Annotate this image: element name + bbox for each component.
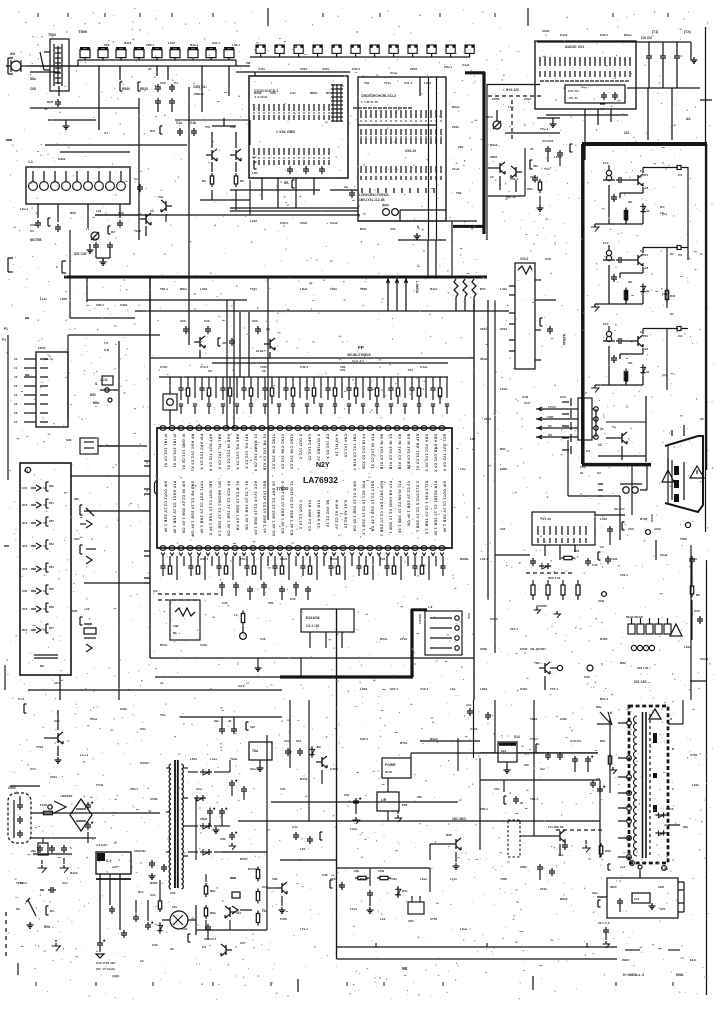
wire bus above box B: [236, 72, 350, 76]
svg-text:30L: 30L: [628, 280, 633, 284]
dashed net to FBT: [556, 829, 602, 831]
wire box D to CRT board: [585, 88, 672, 160]
svg-text:2.9: 2.9: [678, 173, 683, 177]
dashes under tuner text: [488, 95, 541, 97]
wire X203 rails: [568, 409, 620, 496]
svg-text:SIF IN C2.1V 2GB 1.0F CN: SIF IN C2.1V 2GB 1.0F CN: [182, 481, 186, 533]
svg-text:[4:]: [4:]: [662, 292, 667, 296]
caps near N401: [344, 793, 402, 824]
svg-text:R5xx: R5xx: [160, 643, 168, 647]
svg-text:T95.1: T95.1: [530, 797, 538, 801]
resistor R533: [138, 82, 148, 91]
labels below IC mid: [222, 597, 296, 605]
front AV connector XS201: [36, 352, 68, 427]
svg-text:254: 254: [643, 173, 648, 177]
T901 primary winding arcs: [634, 716, 638, 856]
svg-text:C1.3: C1.3: [18, 697, 25, 701]
svg-text:H: NNNN-x .2: H: NNNN-x .2: [623, 973, 644, 977]
svg-text:3C: 3C: [700, 417, 705, 421]
box C pin comb row 1: [360, 110, 441, 122]
svg-text:Z25x: Z25x: [452, 125, 459, 129]
svg-text:3X4/9: 3X4/9: [650, 514, 654, 522]
box B bottom caps: [287, 166, 325, 174]
varistor RV801: [16, 898, 36, 916]
svg-text:02u: 02u: [214, 719, 219, 723]
wire long verticals to IC top: [227, 300, 495, 653]
svg-text:V11x: V11x: [258, 67, 265, 71]
svg-text:R20: R20: [360, 227, 366, 231]
svg-text:J0b: J0b: [316, 745, 321, 749]
svg-text:L6ux: L6ux: [460, 927, 468, 931]
svg-text:V1R AND FC C2: V1R AND FC C2: [308, 500, 312, 531]
svg-text:V9u.1: V9u.1: [250, 767, 259, 771]
primary electrolytic C810: [96, 940, 105, 958]
resistor row E30: [531, 580, 580, 608]
wire horiz y145: [45, 144, 187, 146]
svg-text:C30: C30: [222, 601, 228, 605]
svg-text:T7u0: T7u0: [96, 783, 104, 787]
svg-text:LA76932: LA76932: [303, 475, 338, 485]
parts J26: [218, 338, 235, 346]
wire bottom risers: [267, 700, 474, 930]
keyboard key row 5: [22, 563, 54, 572]
T801 winding taps: [166, 768, 188, 856]
svg-text:C3.I: C3.I: [62, 881, 68, 885]
svg-text:R3u: R3u: [596, 705, 602, 709]
svg-text:R530: R530: [122, 87, 130, 91]
svg-text:C0b: C0b: [22, 589, 28, 593]
wire y115 horizontals: [505, 115, 628, 133]
box B lower-left parts: [252, 155, 259, 175]
svg-text:X22: X22: [250, 725, 255, 729]
svg-text:FP: FP: [358, 345, 364, 350]
CRT amp bottom wire: [609, 185, 643, 224]
capacitor C540: [55, 224, 61, 232]
svg-text:V6u.1: V6u.1: [700, 657, 709, 661]
wire right cluster rails: [488, 148, 525, 196]
svg-text:Z2u0: Z2u0: [480, 357, 488, 361]
svg-text:.7MHz c: .7MHz c: [193, 92, 205, 96]
IC U201 bottom pin name labels: [164, 481, 447, 537]
vertical net label L5x03A: [415, 281, 419, 294]
crystal X1 box: [163, 377, 177, 425]
svg-text:.1 .2 1S 2L: .1 .2 1S 2L: [254, 95, 268, 99]
svg-text:R57: R57: [49, 626, 54, 630]
IF link parts: [537, 179, 544, 211]
dashed luminance net: [526, 573, 572, 580]
svg-text:E02: E02: [402, 803, 408, 807]
svg-text:2P1 ABCDE1 C2.1V 2GB 1.0: 2P1 ABCDE1 C2.1V 2GB 1.0: [218, 481, 222, 537]
svg-text:L40x: L40x: [500, 287, 507, 291]
T901 terminals: [618, 721, 631, 860]
svg-text:Tx1 1DE.3G: Tx1 1DE.3G: [548, 825, 564, 829]
svg-text:T22.1: T22.1: [620, 573, 628, 577]
parts left of chain: [222, 878, 252, 914]
svg-text:F1N 3G1B1 C2.1V 2GB 1.0F: F1N 3G1B1 C2.1V 2GB 1.0F: [434, 481, 438, 536]
svg-text:L3ux: L3ux: [350, 827, 358, 831]
svg-text:2.9: 2.9: [678, 334, 683, 338]
wire horiz y758: [411, 753, 598, 758]
svg-text:T350: T350: [500, 877, 507, 881]
svg-text:Z40x: Z40x: [560, 717, 567, 721]
svg-text:1.: 1.: [222, 899, 225, 903]
coil row L30: [631, 645, 654, 670]
standby transistor V806: [267, 877, 287, 913]
CRT board bottom transistor: [606, 425, 627, 460]
svg-text:2.9: 2.9: [678, 253, 683, 257]
svg-text:Z12.1: Z12.1: [510, 627, 518, 631]
svg-text:> XXL GBO: > XXL GBO: [276, 130, 295, 134]
svg-text:-29u: -29u: [30, 849, 36, 853]
svg-text:C6x: C6x: [140, 727, 146, 731]
svg-text:T810: T810: [260, 365, 267, 369]
svg-text:V7u.1: V7u.1: [200, 365, 209, 369]
dashed net below IC left: [153, 589, 218, 600]
svg-text:12V: 12V: [660, 907, 665, 911]
connector X902 left of CRT board: [560, 395, 571, 454]
wire vertical x691 lower: [690, 545, 692, 700]
transistor Q22: [194, 336, 205, 358]
resistor R536: [202, 173, 214, 187]
svg-text:R: R: [670, 717, 673, 721]
switch sub-circuit S4: [72, 607, 96, 652]
label 222: [600, 104, 630, 135]
svg-text:5+3 2/3: 5+3 2/3: [506, 88, 519, 92]
CRT amp bottom wire: [609, 265, 643, 304]
svg-text:V10.1: V10.1: [420, 687, 428, 691]
svg-text:34-: 34-: [646, 370, 650, 374]
svg-text:T100: T100: [16, 881, 23, 885]
warning triangle right: [670, 624, 682, 636]
svg-text:LCRXCRXCYCRX2L: LCRXCRXCYCRX2L: [359, 193, 389, 197]
CRT amp circuit B coil L: [603, 322, 615, 342]
svg-text:C3d: C3d: [182, 927, 188, 931]
svg-text:L90x: L90x: [480, 687, 487, 691]
N601b pin stubs: [678, 882, 684, 912]
svg-text:T4u: T4u: [544, 167, 550, 171]
svg-text:V1N3 CVA 1V2.C0: V1N3 CVA 1V2.C0: [290, 434, 294, 469]
svg-text:C91: C91: [390, 227, 396, 231]
svg-text:N2Y: N2Y: [316, 462, 330, 469]
svg-text:T20: T20: [104, 43, 110, 47]
svg-text:R1x: R1x: [138, 890, 144, 894]
capacitor C805: [40, 887, 56, 893]
capacitor C20 right cluster: [252, 319, 270, 334]
svg-text:R52: R52: [49, 519, 54, 523]
svg-text:Z350: Z350: [480, 647, 487, 651]
svg-text:Z1u2: Z1u2: [452, 167, 460, 171]
svg-text:1.1: 1.1: [28, 160, 33, 164]
svg-text:L/R: L/R: [381, 798, 387, 802]
svg-text:R812: R812: [560, 897, 568, 901]
volume control box N202: [515, 257, 535, 369]
wire bus risers: [70, 230, 436, 520]
svg-text:V21: V21: [280, 787, 286, 791]
N601b internals: [610, 885, 665, 912]
wire vertical x452 stub: [451, 221, 453, 277]
fuse F801: [40, 803, 56, 815]
keyboard box label: [24, 467, 31, 473]
wire horiz y190 segment mid: [330, 189, 358, 191]
svg-text:V4u2: V4u2: [462, 63, 470, 67]
svg-text:-C6 .1x: -C6 .1x: [568, 96, 578, 100]
svg-text:T2x0: T2x0: [134, 229, 141, 233]
svg-text:V720: V720: [690, 753, 698, 757]
svg-text:C11: C11: [408, 368, 413, 372]
wire horiz y215: [95, 214, 360, 216]
svg-text:(R20: (R20: [610, 885, 617, 889]
sheet top ruler tick marks: [38, 8, 668, 26]
caps on 780 rail: [590, 777, 605, 794]
svg-text:3C0: 3C0: [22, 521, 28, 525]
svg-text:V20x: V20x: [322, 67, 330, 71]
wire collector rails: [212, 118, 236, 210]
labels S= near box G top: [93, 378, 118, 405]
SIF module box N601b: [607, 878, 678, 918]
svg-text:R51x: R51x: [380, 637, 388, 641]
svg-text:33C/DL/TW/E2X: 33C/DL/TW/E2X: [347, 353, 372, 357]
svg-text:L922: L922: [360, 687, 367, 691]
label C02 on wire: [160, 681, 245, 688]
svg-text:P1F IN 1V2.C0 X1: P1F IN 1V2.C0 X1: [371, 434, 375, 469]
wire deflection rails: [534, 700, 600, 858]
STR regulator U801: [96, 852, 131, 879]
svg-text:T70.1: T70.1: [550, 687, 558, 691]
svg-text:A2:: A2:: [686, 117, 691, 121]
svg-text:L1u: L1u: [508, 105, 514, 109]
svg-text:2DB: 2DB: [605, 849, 611, 853]
svg-text:4.8: 4.8: [644, 266, 649, 270]
transistor Q303: [488, 162, 505, 190]
svg-text:b: b: [672, 787, 674, 791]
svg-text:A1 L C2.1V 2GB 1.0F CN: A1 L C2.1V 2GB 1.0F CN: [245, 481, 249, 530]
svg-text:R51: R51: [49, 501, 54, 505]
transistor Q501: [205, 125, 217, 172]
svg-text:SEL OUT C2.1V 2GB 1.0F C: SEL OUT C2.1V 2GB 1.0F C: [209, 481, 213, 536]
svg-text:(8)(8): (8)(8): [382, 203, 389, 207]
svg-text:R412: R412: [124, 41, 132, 45]
AV switch box N301: [358, 77, 446, 221]
svg-text:4.43 FIL 1V: 4.43 FIL 1V: [335, 434, 339, 457]
svg-text:V1 RAMP 1V2.C0 X: V1 RAMP 1V2.C0 X: [254, 434, 258, 472]
spark gaps under CRT board: [597, 471, 642, 511]
switch sub-circuit S1: [66, 438, 119, 454]
svg-text:1TCA: 1TCA: [548, 405, 557, 409]
label row 18L-85: [530, 647, 546, 651]
svg-text:254: 254: [643, 253, 648, 257]
labels LOC 30G: [452, 817, 466, 821]
svg-text:CRCECRCHCRLXCL3: CRCECRCHCRLXCL3: [361, 94, 396, 98]
svg-text:C0:: C0:: [208, 369, 213, 373]
mic preamp parts: [90, 341, 113, 397]
balun transformer T502: [40, 33, 69, 96]
label row under U801: [96, 961, 119, 978]
CRT amp diode: [640, 203, 666, 216]
keyboard key row 2: [22, 499, 54, 508]
svg-text:R3ux: R3ux: [624, 33, 632, 37]
svg-text:R40: R40: [670, 294, 676, 298]
svg-text:TN3: TN3: [534, 661, 540, 665]
svg-text:P0C XC1.1V C2.1V 2GB 1.0: P0C XC1.1V C2.1V 2GB 1.0: [362, 481, 366, 535]
svg-text:[4:]: [4:]: [662, 373, 667, 377]
svg-text:C1 IN 1V2.C0 X1B: C1 IN 1V2.C0 X1B: [389, 434, 393, 470]
svg-text:CAPC 1V2.C0: CAPC 1V2.C0: [308, 434, 312, 461]
svg-text:Z41: Z41: [548, 139, 554, 143]
svg-text:3C: 3C: [170, 947, 175, 951]
labels right of U801: [138, 890, 175, 951]
bits near deflection left: [292, 825, 323, 844]
bottom-right title text: [622, 950, 696, 977]
svg-text:Z65.1: Z65.1: [480, 807, 488, 811]
dashed box around V403 base: [508, 820, 534, 857]
parts x500 cluster: [494, 780, 524, 805]
svg-text:30L: 30L: [628, 361, 633, 365]
svg-text:R4x.1: R4x.1: [190, 43, 199, 47]
box C divider line: [358, 124, 437, 126]
svg-text:R4xx: R4xx: [430, 287, 438, 291]
box B center label: [276, 130, 295, 134]
svg-text:L20.1: L20.1: [480, 557, 488, 561]
transistor Q21: [256, 338, 275, 358]
tuner labels: [490, 147, 534, 199]
svg-text:V4u: V4u: [118, 211, 124, 215]
svg-text:RE-: RE-: [284, 181, 290, 185]
svg-text:C550: C550: [492, 97, 500, 101]
svg-text:34-: 34-: [646, 289, 650, 293]
svg-text:C72x: C72x: [160, 365, 168, 369]
capacitor C26: [204, 319, 211, 334]
svg-text:V40.1: V40.1: [300, 365, 308, 369]
CRT amp circuit G coil L: [603, 241, 615, 261]
svg-text:R30: R30: [47, 100, 53, 104]
svg-text:C62: C62: [580, 465, 586, 469]
svg-text:5C2: 5C2: [296, 739, 302, 743]
svg-text:2X1.13G ---: 2X1.13G ---: [634, 680, 651, 684]
capacitor C531: [155, 81, 166, 92]
CRT amp ground: [591, 304, 609, 311]
svg-text:C53: C53: [160, 81, 166, 85]
svg-text:3x3: 3x3: [501, 749, 506, 753]
CRT bottom verticals: [646, 228, 688, 462]
svg-text:V OUT 1V2.C: V OUT 1V2.C: [299, 434, 303, 460]
svg-text:T3u2: T3u2: [230, 757, 238, 761]
wires into T901 left: [596, 705, 612, 793]
wire CRT bottom horizontals: [598, 422, 646, 456]
svg-text:E2X1/D6: E2X1/D6: [306, 616, 320, 620]
svg-text:1x: 1x: [44, 107, 48, 111]
svg-text:IF IN1 1V2.C0 X1: IF IN1 1V2.C0 X1: [164, 434, 168, 468]
caps right of U802: [570, 739, 593, 772]
XP1 pins: [14, 796, 23, 838]
svg-text:2.5: 2.5: [586, 449, 591, 453]
wire horiz y821: [238, 820, 600, 822]
svg-text:C4b: C4b: [592, 563, 598, 567]
label IF text: [193, 85, 207, 96]
horizontal y740 segment: [420, 740, 480, 742]
wire mains lines: [10, 786, 89, 838]
svg-text:X.B: X.B: [104, 348, 110, 352]
svg-text:R50: R50: [49, 484, 54, 488]
svg-text:R9x: R9x: [600, 739, 606, 743]
svg-text:AUDIO XX1: AUDIO XX1: [565, 45, 584, 49]
svg-text:C2x: C2x: [284, 739, 290, 743]
cluster 020 caps: [214, 717, 255, 734]
svg-text:+2M/C84: +2M/C84: [60, 794, 73, 798]
wires below box B: [230, 178, 320, 208]
resistor R511: [150, 126, 163, 134]
svg-text:Z422: Z422: [520, 687, 527, 691]
svg-text:V1 FB 1V2.C0 X1B: V1 FB 1V2.C0 X1B: [263, 434, 267, 471]
svg-text:16: 16: [14, 411, 18, 415]
dashed left margin: [5, 912, 7, 956]
svg-text:CN4 1V2.C0: CN4 1V2.C0: [344, 434, 348, 458]
svg-text:S14: S14: [514, 735, 520, 739]
transistor Q304: [511, 166, 522, 192]
capacitor cluster below IC: [219, 582, 311, 600]
svg-text:P1T AN 1AN3 C2.1V 2GB 1.: P1T AN 1AN3 C2.1V 2GB 1.: [389, 481, 393, 535]
capacitor C306: [527, 175, 538, 191]
svg-text:SIF OUT1 C2.1V 2GB 1.0F: SIF OUT1 C2.1V 2GB 1.0F: [164, 481, 168, 533]
XS301 pin comb: [538, 526, 586, 543]
svg-text:V1N1 CVA 1V2.C0: V1N1 CVA 1V2.C0: [281, 434, 285, 469]
CRT amp ground: [591, 224, 609, 231]
trimmer TC301: [486, 110, 501, 129]
regulator 7805 N803: [249, 742, 272, 771]
CRT amp transistor V902: [632, 249, 649, 270]
svg-text:AFT OUT 1V2.C0 X: AFT OUT 1V2.C0 X: [209, 434, 213, 472]
svg-text:E1P BK 1V2.C0 X1: E1P BK 1V2.C0 X1: [416, 434, 420, 471]
wire heavy AGC bus: [64, 276, 487, 279]
sheet bottom ruler tick marks: [36, 976, 673, 992]
svg-text:Z90x: Z90x: [520, 865, 527, 869]
IC U201 body: [155, 428, 453, 548]
svg-text:F1S0: F1S0: [40, 803, 48, 807]
cap C707: [694, 609, 703, 624]
N601b left stub: [592, 891, 607, 907]
svg-text:30L: 30L: [628, 200, 633, 204]
XS201 pin rows: [14, 357, 48, 424]
bracket R539: [48, 218, 51, 226]
label 2X1.13G: [634, 680, 706, 684]
svg-text:1C0: 1C0: [22, 486, 28, 490]
decoupling comb above IC: [178, 377, 449, 414]
svg-text:S30: S30: [66, 438, 72, 442]
svg-text:T600: T600: [360, 287, 367, 291]
wire vertical x301 drop: [290, 658, 301, 768]
svg-text:2x: 2x: [580, 471, 584, 475]
wire drops below Z501: [38, 204, 120, 228]
IC U201 top pin ovals: [160, 426, 445, 431]
opto wires: [162, 905, 196, 935]
labels T1 TX: [652, 30, 691, 34]
svg-text:AF1 FIL 1V2.C0 X: AF1 FIL 1V2.C0 X: [245, 434, 249, 469]
AC power connector XP1: [8, 786, 31, 843]
IC-left stub ticks: [144, 461, 150, 583]
svg-text:E30/R50: E30/R50: [536, 604, 547, 608]
svg-text:R02-1.52: R02-1.52: [548, 576, 561, 580]
svg-text:RE-EF-ER-ER: RE-EF-ER-ER: [626, 615, 643, 619]
svg-text:V10: V10: [260, 637, 266, 641]
capacitor C23: [180, 319, 189, 334]
service connector X203: [578, 398, 592, 440]
svg-text:R4:: R4:: [660, 205, 665, 209]
svg-text:C20: C20: [252, 319, 258, 323]
svg-text:L65x: L65x: [190, 757, 197, 761]
svg-text:L850: L850: [60, 297, 67, 301]
svg-text:17: 17: [14, 420, 18, 424]
caps under transformer: [149, 860, 168, 879]
vertical drive IC N401: [377, 778, 422, 821]
